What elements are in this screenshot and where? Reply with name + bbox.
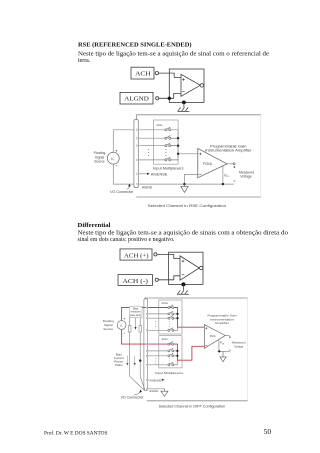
svg-text:AISENSE: AISENSE — [149, 378, 161, 382]
wire bus tail top mux — [177, 327, 179, 330]
svg-text:Paths: Paths — [115, 363, 123, 367]
analog ground symbol AIGND — [161, 389, 168, 397]
wire Vm sense drop — [218, 340, 220, 351]
wire channel row 4 top mux — [148, 329, 168, 331]
node Vm junction dot — [222, 183, 224, 185]
wire SW1 to bus — [171, 129, 178, 131]
floating signal source circle — [107, 152, 119, 164]
ground symbol fig1 — [177, 102, 189, 111]
ACH (-) terminal box — [118, 275, 153, 286]
node top bus dots — [176, 313, 178, 315]
device box bottom border — [136, 196, 261, 198]
switch SW12 — [170, 362, 174, 364]
source - polarity — [124, 332, 126, 334]
node Vm junction dot — [218, 350, 220, 352]
wire AISENSE — [138, 173, 147, 175]
svg-text:Vm: Vm — [224, 172, 230, 178]
PGIA - input label — [205, 345, 207, 347]
svg-text:I/O Connector: I/O Connector — [121, 395, 145, 399]
bias resistors label box — [129, 306, 142, 317]
ellipsis top mux — [155, 321, 169, 327]
bottom mux box ACH- — [159, 336, 182, 368]
arrow I/O Connector — [134, 392, 141, 395]
switches bottom mux — [168, 342, 178, 366]
device box right border — [247, 298, 249, 401]
resistor R2 — [139, 326, 142, 332]
terminal - mark — [233, 180, 235, 182]
svg-text:Source: Source — [94, 160, 105, 164]
op-amp output nub — [200, 84, 203, 87]
ellipsis more channels inside mux — [164, 149, 167, 156]
svg-text:ACH: ACH — [135, 71, 151, 78]
wire channel row 4 bottom mux — [148, 364, 168, 366]
wire ALGND to op-amp - input — [159, 93, 181, 98]
svg-text:ALGND: ALGND — [124, 96, 149, 103]
svg-text:Input Multiplexers: Input Multiplexers — [155, 371, 184, 375]
op-amp - label — [182, 91, 185, 93]
svg-text:Voltage: Voltage — [240, 175, 251, 179]
svg-text:ACH (+): ACH (+) — [124, 252, 149, 259]
svg-text:Neste tipo de ligação tem-se a: Neste tipo de ligação tem-se a aquisição… — [78, 51, 269, 58]
switch SW1 — [165, 127, 171, 131]
op-amp triangle U1 — [181, 74, 200, 96]
wire channel row 2 — [136, 137, 165, 139]
mux output bus — [177, 130, 179, 160]
node ALGND junction dot — [168, 97, 171, 100]
ACH (-) connector circle — [155, 278, 158, 281]
mux box — [153, 120, 178, 164]
top mux box ACH+ — [159, 300, 182, 334]
wire bus tail bottom mux — [176, 360, 178, 365]
svg-text:I/O Connector: I/O Connector — [110, 190, 134, 194]
device box right border — [260, 115, 262, 197]
node bias wire 2 dot — [139, 359, 141, 361]
AISENSE arrowhead — [147, 173, 150, 175]
device box top border — [145, 297, 248, 299]
PGIA + input label — [199, 153, 201, 155]
op-amp - label — [182, 274, 185, 276]
arrow I/O Connector — [127, 186, 130, 189]
wire channel row 3 top mux — [148, 317, 168, 319]
wire Vm bottom rail — [217, 350, 230, 352]
ALGND connector circle — [156, 97, 159, 100]
svg-text:AIGND: AIGND — [142, 185, 153, 189]
svg-text:PGIA: PGIA — [203, 162, 213, 166]
wire source - down to AIGND rail — [113, 164, 234, 184]
source + polarity — [116, 150, 118, 152]
svg-text:ACH+: ACH+ — [162, 301, 169, 305]
I/O connector body — [144, 299, 148, 391]
svg-text:Differential: Differential — [78, 222, 111, 229]
ellipsis more channels left — [147, 149, 150, 156]
switch SW7 — [170, 316, 174, 318]
I/O connector pins — [137, 129, 139, 185]
ACH connector circle — [155, 72, 158, 75]
switch SW4 — [165, 157, 178, 161]
bias resistor wire 1 — [130, 318, 144, 390]
wire channel row 2 top mux — [148, 313, 168, 315]
terminal + mark — [233, 166, 235, 168]
wire PGIA output — [225, 335, 229, 337]
wire ACH to op-amp + input — [159, 73, 182, 77]
svg-text:Neste tipo de ligação tem-se a: Neste tipo de ligação tem-se a aquisição… — [78, 230, 289, 236]
ground symbol fig3 — [177, 284, 189, 294]
I/O connector body — [134, 120, 138, 188]
op-amp output nub — [200, 266, 203, 269]
svg-text:terra.: terra. — [78, 58, 91, 64]
switches top mux — [168, 305, 178, 331]
wire AIGND — [148, 388, 165, 390]
PGIA - input label — [199, 173, 201, 175]
switch SW6 — [170, 311, 174, 313]
node bottom bus dots — [176, 350, 178, 352]
amplifier enclosure box U1 — [169, 69, 204, 102]
svg-text:Source: Source — [103, 327, 113, 331]
svg-text:50: 50 — [264, 427, 272, 436]
switch SW3 — [165, 143, 178, 147]
wire AIGND to PGIA - input — [184, 174, 197, 184]
svg-text:AISENSE: AISENSE — [151, 172, 168, 176]
resistor R1 — [128, 326, 131, 332]
bias label leader arrow — [135, 318, 137, 328]
switch SW10 — [170, 348, 174, 350]
svg-text:Voltage: Voltage — [234, 345, 243, 349]
node ground junction dot — [181, 282, 185, 286]
op-amp + label — [182, 78, 185, 81]
ALGND terminal box — [120, 92, 153, 104]
terminal - mark — [229, 349, 231, 351]
ACH terminal box — [131, 67, 154, 79]
svg-text:(see text): (see text) — [130, 313, 141, 317]
PGIA op-amp triangle — [198, 148, 227, 177]
switch SW8 — [170, 328, 174, 330]
wire ACH- to op-amp - input — [158, 276, 180, 280]
svg-text:Selected Channel in RSE Config: Selected Channel in RSE Configuration — [148, 204, 227, 208]
amplifier enclosure box U2 — [169, 252, 203, 284]
wire channel row 2 bottom mux — [148, 350, 168, 352]
svg-text:Prof. Dr. W E DOS SANTOS: Prof. Dr. W E DOS SANTOS — [44, 432, 108, 437]
AISENSE arrowhead — [162, 379, 165, 381]
ACH (+) terminal box — [120, 249, 152, 260]
red selected + path from source to top mux — [122, 308, 205, 361]
wire from source + up to ACH0 channel — [113, 130, 165, 153]
PGIA output terminal circle — [233, 163, 235, 165]
wire AISENSE — [148, 379, 149, 381]
terminal + mark — [229, 336, 231, 338]
wire bus to PGIA + input — [178, 153, 198, 155]
I/O connector pins — [146, 307, 148, 390]
source - polarity — [116, 165, 118, 167]
bias resistor wire 2 — [140, 318, 145, 390]
wire PGIA output — [227, 163, 233, 165]
switch SW2 — [165, 136, 178, 140]
node ground junction dot on box bottom — [182, 101, 186, 105]
node bus junction dots — [177, 137, 179, 139]
op-amp + label — [182, 260, 185, 263]
source + polarity — [124, 318, 126, 320]
ellipsis bottom mux — [155, 358, 169, 364]
svg-text:RSE (REFERENCED SINGLE-ENDED): RSE (REFERENCED SINGLE-ENDED) — [78, 41, 192, 48]
device box bottom border — [147, 400, 248, 402]
bias current return arrows — [127, 356, 134, 364]
svg-text:AIGND: AIGND — [149, 389, 159, 393]
device box top border — [137, 115, 261, 120]
svg-text:Selected Channel in DIFF Confi: Selected Channel in DIFF Configuration — [159, 405, 226, 409]
svg-text:ACH (-): ACH (-) — [122, 278, 147, 285]
svg-text:ACH...: ACH... — [156, 123, 164, 127]
svg-text:ACH-: ACH- — [162, 337, 169, 341]
PGIA op-amp triangle — [204, 325, 225, 349]
switch SW11 — [170, 353, 174, 355]
PGIA + input label — [205, 327, 207, 329]
svg-text:Instrumentation Amplifier: Instrumentation Amplifier — [205, 149, 253, 153]
op-amp triangle U2 — [180, 256, 199, 280]
floating signal source circle — [117, 321, 126, 330]
node AIGND junction dot — [183, 183, 185, 185]
wire channel row 4 — [136, 159, 165, 161]
ACH (+) connector circle — [154, 253, 157, 256]
svg-text:Vm: Vm — [220, 341, 224, 346]
switch SW5 — [170, 305, 174, 307]
svg-text:sinal em dois canais: positivo: sinal em dois canais: positivo e negativ… — [78, 237, 176, 243]
analog ground symbol at Vm rail — [220, 351, 226, 361]
switch SW9 — [170, 342, 174, 344]
svg-text:Input Multiplexers: Input Multiplexers — [153, 167, 184, 171]
svg-text:Amplifier: Amplifier — [215, 321, 229, 325]
svg-text:PGIA: PGIA — [210, 334, 216, 338]
wire ACH+ to op-amp + input — [157, 254, 180, 258]
wire Vm sense drop — [222, 165, 224, 185]
red selected - path from source to bottom mux — [122, 329, 205, 360]
wire channel row 3 bottom mux — [148, 355, 168, 357]
wire channel row 3 — [136, 145, 165, 147]
analog ground symbol — [181, 184, 188, 192]
